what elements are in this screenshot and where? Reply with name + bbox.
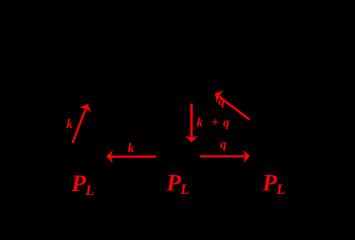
svg-text:+: + bbox=[211, 114, 219, 129]
svg-text:q: q bbox=[223, 114, 230, 129]
wire: diagonal momentum arrow q (up-left) bbox=[215, 90, 250, 119]
wire: diagonal momentum arrow k (up-right) bbox=[73, 104, 92, 143]
svg-text:k: k bbox=[197, 114, 204, 129]
svg-text:q: q bbox=[220, 136, 227, 151]
wire: horizontal momentum arrow k (pointing left) bbox=[106, 150, 156, 163]
svg-text:k: k bbox=[66, 116, 73, 131]
svg-text:k: k bbox=[128, 140, 135, 155]
svg-text:q: q bbox=[218, 93, 225, 108]
wire: vertical momentum arrow k+q (pointing down) bbox=[185, 104, 198, 143]
wire: horizontal momentum arrow q (pointing right) bbox=[200, 150, 250, 163]
